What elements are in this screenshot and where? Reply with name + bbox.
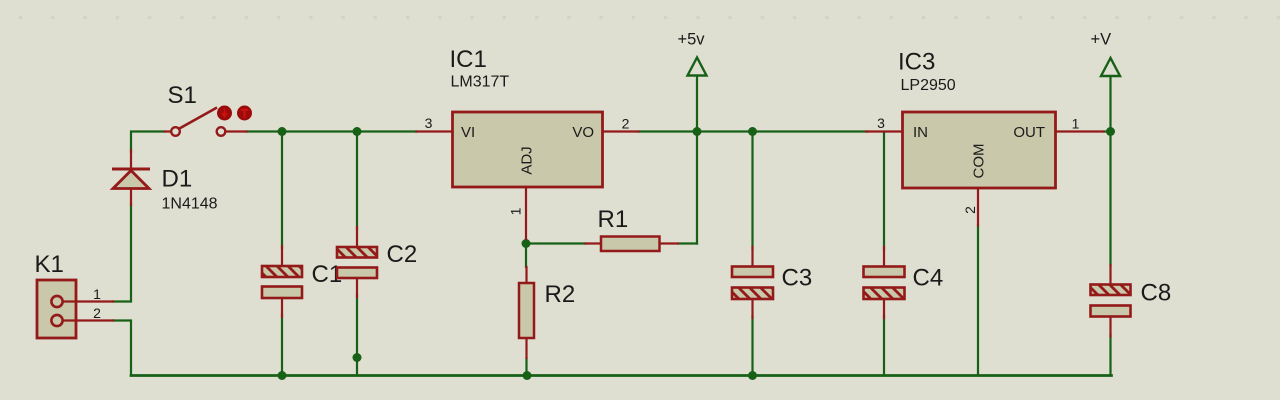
wire: +V rail down through C8 to ground rail (1109, 76, 1111, 376)
IC3 pin name OUT (1013, 124, 1045, 141)
svg-text:C3: C3 (782, 265, 813, 292)
junction: +V at OUT net (1106, 127, 1115, 136)
junction: +5v at output net (693, 127, 702, 136)
svg-text:ADJ: ADJ (519, 146, 536, 174)
wire: IC3 OUT to +V node (1103, 130, 1111, 132)
capacitor C3 (polarized) (732, 247, 773, 318)
IC1 pin name VI (461, 124, 475, 141)
IC3 reference label (898, 49, 935, 76)
junction: ADJ node (522, 239, 531, 248)
resistor R2 (519, 267, 534, 358)
IC3 pin 2 number (rotated) (962, 206, 978, 214)
IC3 pin name IN (913, 124, 928, 141)
C1 reference label (312, 261, 343, 288)
connector K1 (37, 280, 113, 338)
svg-text:COM: COM (971, 144, 988, 179)
IC3 value label LP2950 (901, 77, 956, 94)
+V net label (1091, 31, 1112, 49)
wire: ADJ node to R1 and R2 (526, 239, 697, 267)
D1 reference label (162, 166, 193, 193)
K1 pin 2 number (93, 305, 101, 321)
svg-text:D1: D1 (162, 166, 193, 193)
IC1 pin 3 number (425, 115, 433, 131)
wire: C1 branch from top net (281, 132, 283, 376)
D1 value label 1N4148 (162, 196, 218, 213)
wire: R2 bottom to ground rail (525, 358, 527, 376)
wire: C4 branch from IC3 IN pin (883, 133, 885, 376)
IC3 pin 3 number (877, 115, 885, 131)
svg-text:+V: +V (1091, 31, 1112, 49)
svg-text:2: 2 (93, 305, 101, 321)
IC1 pin 1 number (rotated) (508, 207, 524, 215)
IC3 pin 1 number (1072, 116, 1080, 132)
junction: C3 at output net (748, 127, 757, 136)
svg-text:OUT: OUT (1013, 124, 1045, 141)
svg-text:IC1: IC1 (450, 46, 487, 73)
svg-text:1N4148: 1N4148 (162, 196, 218, 213)
svg-text:3: 3 (877, 115, 885, 131)
ground rail wire (bottom bus) (131, 374, 1112, 377)
junction: C2 lower wire join (353, 353, 362, 362)
svg-text:LM317T: LM317T (451, 74, 510, 91)
power symbol +V (1101, 58, 1120, 76)
svg-text:IN: IN (913, 124, 928, 141)
IC1 pin name ADJ (rotated) (519, 146, 536, 174)
svg-text:S1: S1 (168, 82, 197, 109)
capacitor C4 (polarized) (864, 247, 905, 318)
diode D1 (112, 150, 150, 205)
IC1 pin 2 number (622, 116, 630, 132)
svg-text:K1: K1 (35, 251, 64, 278)
svg-text:IC3: IC3 (898, 49, 935, 76)
R2 reference label (545, 281, 576, 308)
svg-text:R1: R1 (598, 206, 629, 233)
wire: K1 pin1 up to D1 anode (113, 204, 131, 302)
R1 reference label (598, 206, 629, 233)
svg-text:LP2950: LP2950 (901, 77, 956, 94)
svg-text:2: 2 (622, 116, 630, 132)
svg-text:1: 1 (1072, 116, 1080, 132)
svg-text:+5v: +5v (678, 31, 706, 49)
svg-text:3: 3 (425, 115, 433, 131)
wire: IC1 VO output net to IC3 IN (639, 130, 868, 132)
wire: IC3 COM to ground rail (977, 226, 979, 376)
wire: +5v rail down to R1 right pin (696, 76, 698, 244)
IC1 pin name VO (572, 124, 594, 141)
IC1 value label LM317T (451, 74, 510, 91)
capacitor C2 (polarized) (337, 227, 377, 297)
svg-text:VO: VO (572, 124, 594, 141)
C3 reference label (782, 265, 813, 292)
svg-text:VI: VI (461, 124, 475, 141)
svg-text:C8: C8 (1141, 280, 1172, 307)
resistor R1 (586, 237, 679, 252)
junction: C3 at ground rail (748, 371, 757, 380)
wire: C2 branch (356, 132, 358, 376)
S1 toggle actuator buttons (217, 106, 252, 121)
capacitor C8 (polarized) (1091, 265, 1131, 337)
junction: R2 at ground rail (523, 371, 532, 380)
capacitor C1 (polarized) (262, 246, 302, 317)
svg-text:2: 2 (962, 206, 978, 214)
C4 reference label (913, 265, 944, 292)
svg-text:C2: C2 (387, 241, 418, 268)
wire: S1 to IC1 VI pin (247, 130, 417, 132)
svg-text:1: 1 (93, 286, 101, 302)
IC3 pin name COM (rotated) (971, 144, 988, 179)
svg-text:C4: C4 (913, 265, 944, 292)
wire: D1 cathode up and right to S1 (131, 132, 165, 153)
junction: C1 at top net (278, 127, 287, 136)
IC1 reference label (450, 46, 487, 73)
wire: C3 branch (751, 132, 753, 376)
S1 reference label (168, 82, 197, 109)
junction: C2 at top net (353, 127, 362, 136)
voltage regulator IC1 (417, 112, 639, 239)
switch S1 (165, 108, 247, 136)
C2 reference label (387, 241, 418, 268)
svg-text:1: 1 (508, 207, 524, 215)
svg-text:R2: R2 (545, 281, 576, 308)
K1 pin 1 number (93, 286, 101, 302)
+5v net label (678, 31, 706, 49)
wire: K1 pin2 to ground rail (113, 321, 131, 376)
voltage regulator IC3 (866, 112, 1104, 226)
C8 reference label (1141, 280, 1172, 307)
junction: C1 at ground rail (278, 371, 287, 380)
K1 reference label (35, 251, 64, 278)
power symbol +5v (688, 58, 707, 76)
